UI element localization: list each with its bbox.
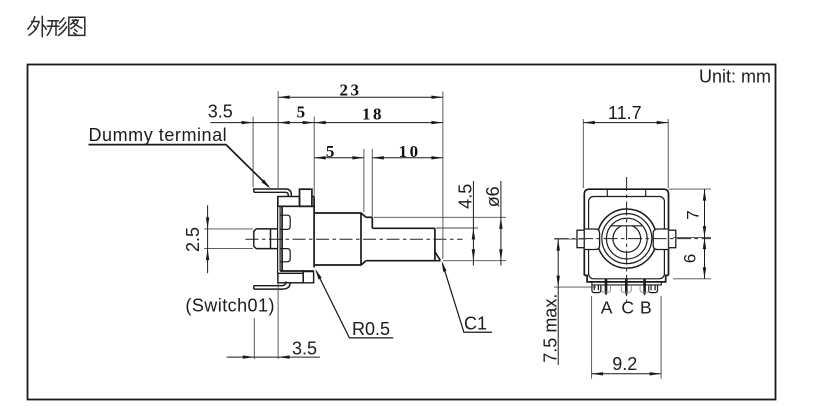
svg-text:ø6: ø6 (483, 186, 503, 207)
front centerline horizontal (555, 238, 712, 240)
svg-text:23: 23 (340, 80, 362, 99)
dim 7 (669, 189, 712, 238)
dim 18 / 5 / 3.5 shared line (210, 122, 443, 124)
front centerline vertical (626, 177, 628, 302)
svg-text:4.5: 4.5 (456, 184, 476, 209)
svg-text:C: C (621, 297, 634, 317)
dim 11.7 (583, 103, 668, 188)
dim 3.5 bottom (227, 283, 320, 359)
dim dia 6 (483, 181, 503, 266)
svg-text:3.5: 3.5 (292, 338, 317, 358)
dim 7.5 max (541, 239, 596, 365)
top edge ticks (607, 189, 645, 196)
title 外形图 (28, 16, 85, 37)
svg-text:10: 10 (399, 142, 421, 161)
terminal pin C (621, 279, 631, 296)
svg-text:C1: C1 (464, 314, 487, 334)
svg-text:7: 7 (683, 210, 702, 219)
label C1 (442, 261, 493, 334)
dim 4.5 (456, 181, 476, 266)
centerline (side view) (246, 238, 463, 240)
terminal pin A (602, 279, 611, 296)
svg-text:7.5 max.: 7.5 max. (541, 294, 561, 363)
extension lines (253, 91, 506, 261)
body top step (312, 195, 314, 197)
dummy terminal strip (top) (254, 189, 291, 197)
terminal bar (bottom) (278, 272, 314, 283)
bushing (314, 213, 366, 265)
svg-text:11.7: 11.7 (608, 103, 642, 123)
plate pocket (upper) (280, 215, 290, 229)
label R0.5 (315, 269, 393, 339)
dim 9.2 (592, 296, 662, 379)
svg-text:Unit: mm: Unit: mm (699, 67, 771, 87)
svg-text:18: 18 (362, 104, 384, 123)
circles (597, 209, 656, 268)
terminal pin B (640, 279, 649, 296)
body block (278, 196, 314, 271)
front body outline (584, 189, 668, 282)
left tab (577, 229, 600, 250)
svg-text:3.5: 3.5 (208, 101, 233, 121)
dim 10 (372, 142, 443, 161)
dim 3.5 top (208, 101, 253, 124)
svg-text:5: 5 (297, 102, 308, 121)
switch terminal bent leg (bottom) (254, 281, 290, 289)
svg-text:Dummy terminal: Dummy terminal (89, 125, 228, 145)
right tab (653, 229, 676, 250)
bracket plate (278, 197, 281, 274)
label Dummy terminal (89, 125, 271, 189)
svg-text:9.2: 9.2 (612, 354, 637, 374)
dim 5 top (278, 102, 314, 124)
dim 2.5 (183, 205, 253, 273)
svg-text:B: B (640, 297, 652, 317)
svg-text:6: 6 (681, 254, 700, 263)
rear boss (254, 229, 278, 249)
svg-text:A: A (601, 297, 613, 317)
svg-text:2.5: 2.5 (183, 227, 203, 252)
bottom plate strip (592, 282, 661, 285)
plate pocket (lower) (280, 249, 290, 262)
svg-text:5: 5 (326, 142, 337, 161)
svg-text:(Switch01): (Switch01) (185, 295, 275, 315)
front inner plate (589, 197, 665, 279)
right foot (649, 285, 658, 293)
shaft (366, 217, 440, 260)
left foot (592, 285, 601, 293)
terminal bar (top) (278, 197, 300, 207)
svg-text:R0.5: R0.5 (352, 319, 390, 339)
dim 23 (278, 80, 443, 99)
body top tab (300, 189, 312, 206)
dim 6 (673, 238, 711, 279)
dim 18 (314, 104, 443, 124)
dim 5 (bushing) (314, 142, 364, 161)
border frame (28, 65, 776, 400)
